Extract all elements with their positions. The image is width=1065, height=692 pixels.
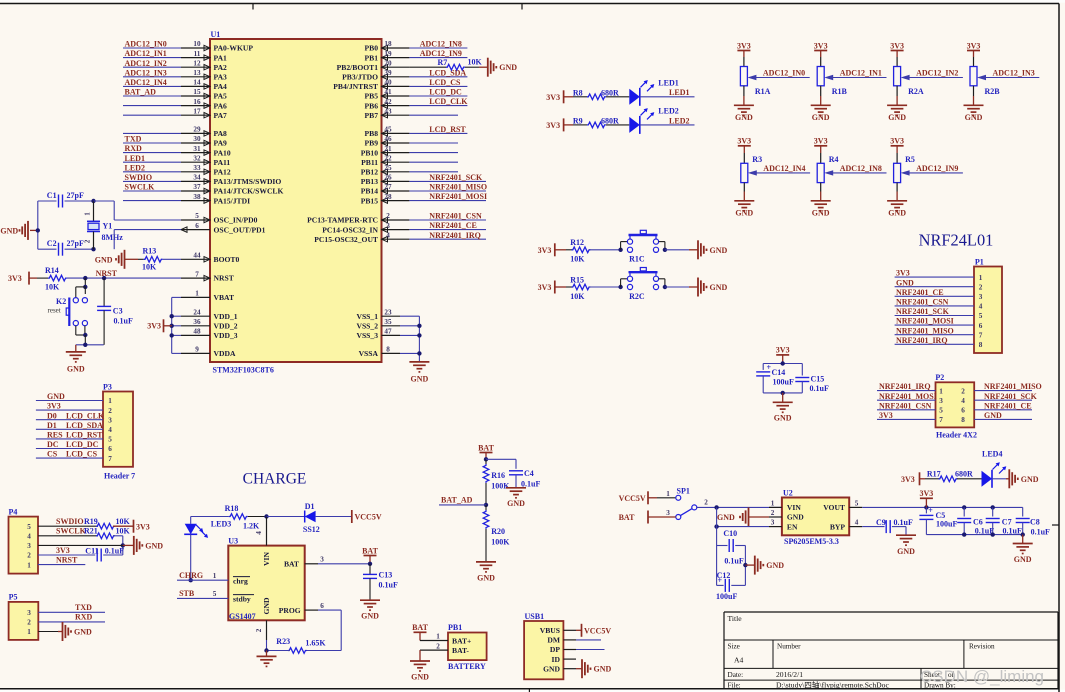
svg-text:P2: P2 [935, 373, 944, 382]
wire TXD [123, 142, 181, 144]
ground GND (R2A) [896, 96, 898, 105]
pin 1 chrg / net CHRG [177, 579, 228, 581]
svg-text:PC15-OSC32_OUT: PC15-OSC32_OUT [314, 235, 378, 244]
pin 2 GND (U3) [266, 620, 268, 640]
pin 38 PA15/JTDI [181, 200, 210, 202]
svg-text:PA7: PA7 [214, 111, 228, 120]
wire VSS_1 [400, 315, 419, 317]
svg-text:PB2/BOOT1: PB2/BOOT1 [337, 63, 379, 72]
wire NRF2401_IRQ [409, 238, 486, 240]
svg-text:Y1: Y1 [103, 222, 113, 231]
wire RXD [123, 152, 181, 154]
junction VOUT 3V3 [924, 505, 928, 509]
svg-text:4: 4 [255, 531, 263, 535]
svg-text:NRF2401_CSN: NRF2401_CSN [879, 401, 932, 410]
svg-text:GND: GND [965, 113, 983, 122]
svg-text:GND: GND [717, 513, 735, 522]
LED LED3 [185, 524, 197, 535]
svg-text:26: 26 [384, 174, 392, 182]
svg-text:5: 5 [855, 499, 859, 507]
svg-text:Header 7: Header 7 [104, 472, 135, 481]
svg-text:NRF2401_SCK: NRF2401_SCK [984, 392, 1038, 401]
pin 26 PB13 [382, 180, 410, 182]
svg-text:LED1: LED1 [669, 88, 689, 97]
svg-text:NRF2401_CE: NRF2401_CE [429, 221, 477, 230]
svg-text:ADC12_IN2: ADC12_IN2 [916, 69, 958, 78]
svg-text:GND: GND [361, 612, 379, 621]
svg-text:GND: GND [507, 499, 525, 508]
svg-text:C11: C11 [85, 546, 98, 555]
svg-text:LED2: LED2 [669, 116, 689, 125]
svg-text:PA2: PA2 [214, 63, 228, 72]
svg-text:SWCLK: SWCLK [125, 183, 156, 192]
junction Y1 top [91, 199, 95, 203]
resistor R12 10K [566, 249, 573, 251]
svg-text:3V3: 3V3 [56, 546, 70, 555]
svg-text:33: 33 [193, 164, 201, 172]
svg-text:VCC5V: VCC5V [355, 513, 382, 522]
svg-text:VSSA: VSSA [359, 349, 379, 358]
svg-text:VBUS: VBUS [540, 626, 560, 635]
sheet border bottom [0, 688, 1059, 690]
svg-text:27: 27 [384, 183, 392, 191]
svg-text:C15: C15 [811, 375, 825, 384]
svg-text:2: 2 [27, 552, 31, 560]
svg-text:+: + [718, 576, 723, 585]
capacitor C8 0.1uF [1022, 507, 1024, 516]
svg-text:PA15/JTDI: PA15/JTDI [214, 196, 251, 205]
pin 5 P4 / resistor R19 10K / net SWDIO [38, 525, 98, 527]
svg-text:VDD_2: VDD_2 [214, 322, 238, 331]
svg-text:NRF2401_MISO: NRF2401_MISO [429, 183, 487, 192]
potentiometer R3 [743, 153, 745, 163]
svg-text:GND: GND [477, 573, 495, 582]
svg-text:17: 17 [193, 107, 201, 115]
svg-text:3V3: 3V3 [737, 41, 751, 50]
svg-text:100K: 100K [491, 482, 510, 491]
svg-text:36: 36 [193, 318, 201, 326]
svg-text:ID: ID [552, 655, 561, 664]
push button R2C [620, 279, 622, 287]
ground GND (P5) [62, 622, 64, 641]
pin 11 PA1 [181, 57, 210, 59]
svg-text:R19: R19 [84, 517, 98, 526]
pin 35 VSS_2 [382, 325, 401, 327]
junction C6 bottom [962, 532, 966, 536]
svg-text:5: 5 [213, 590, 217, 598]
junction VDD_2 [170, 324, 174, 328]
pin 2 PC13-TAMPER-RTC [382, 219, 410, 221]
svg-text:PA14/JTCK/SWCLK: PA14/JTCK/SWCLK [214, 187, 284, 196]
connector P3 Header 7 [103, 392, 133, 467]
wire NRF2401_SCK [409, 180, 486, 182]
IC U2 SP6205EM5-3.3 body [782, 498, 849, 536]
junction C8 bottom [1021, 532, 1025, 536]
svg-text:USB1: USB1 [525, 612, 545, 621]
svg-text:R16: R16 [491, 471, 505, 480]
svg-text:SWCLK: SWCLK [56, 527, 87, 536]
resistor R17 680R [925, 478, 939, 480]
svg-text:LCD_SDA: LCD_SDA [429, 68, 466, 77]
svg-text:LED2: LED2 [125, 163, 145, 172]
svg-text:1: 1 [213, 572, 217, 580]
svg-text:File:: File: [728, 681, 741, 689]
capacitor C7 0.1uF [992, 507, 994, 516]
svg-text:43: 43 [384, 107, 392, 115]
svg-text:40: 40 [384, 79, 392, 87]
pin 37 PA14/JTCK/SWCLK [181, 190, 210, 192]
svg-text:23: 23 [384, 308, 392, 316]
svg-text:NRF24L01: NRF24L01 [919, 231, 994, 250]
pin 44 BOOT0 [181, 258, 210, 260]
svg-text:PB7: PB7 [364, 111, 378, 120]
wire ADC12_IN3 [982, 77, 1039, 79]
wire PROG to R23 [318, 609, 341, 611]
svg-text:BATTERY: BATTERY [448, 662, 486, 671]
ground GND (R1A) [743, 96, 745, 105]
svg-text:10: 10 [193, 40, 201, 48]
wire ADC12_IN2 [123, 66, 181, 68]
power port 3V3 (P4 R19) [133, 520, 135, 533]
svg-text:PB9: PB9 [364, 139, 378, 148]
junction BAT_AD [484, 503, 488, 507]
svg-text:TXD: TXD [75, 603, 92, 612]
pin 1 U2 [769, 506, 782, 508]
wire OSC_OUT link [114, 229, 181, 231]
wire LED4 to GND [992, 478, 1006, 480]
svg-text:LCD_CLK: LCD_CLK [66, 411, 105, 420]
capacitor C4 0.1uF [486, 458, 516, 460]
svg-text:3: 3 [27, 542, 31, 550]
svg-text:6: 6 [320, 602, 324, 610]
svg-text:BAT: BAT [478, 443, 495, 452]
junction CHRG [189, 578, 193, 582]
svg-text:PB14: PB14 [361, 187, 379, 196]
capacitor C3 0.1uF [103, 278, 105, 306]
svg-text:R2A: R2A [908, 87, 924, 96]
junction R2C right [663, 285, 667, 289]
junction C14 top [781, 361, 785, 365]
svg-text:PB8: PB8 [364, 129, 378, 138]
ground GND (BOOT0) [124, 250, 126, 269]
pin 1 P1 / net 3V3 [895, 276, 974, 278]
pin 33 PA12 [181, 171, 210, 173]
svg-text:NRF2401_CE: NRF2401_CE [984, 401, 1032, 410]
junction Y1 bottom [91, 247, 95, 251]
svg-text:PB6: PB6 [364, 101, 378, 110]
svg-text:0.1uF: 0.1uF [114, 317, 133, 326]
svg-text:1: 1 [436, 633, 440, 641]
svg-text:BAT: BAT [619, 513, 636, 522]
svg-text:R14: R14 [45, 266, 59, 275]
wire VOUT to 3V3 rail [862, 506, 1023, 508]
pin 32 PA11 [181, 161, 210, 163]
svg-text:3: 3 [771, 519, 775, 527]
svg-text:GND: GND [897, 547, 915, 556]
wire ADC12_IN3 [123, 76, 181, 78]
svg-text:13: 13 [193, 69, 201, 77]
svg-text:+: + [928, 506, 933, 515]
wire PA6 [123, 105, 181, 107]
svg-text:VDD_1: VDD_1 [214, 312, 238, 321]
svg-text:GND: GND [594, 665, 612, 674]
resistor R18 1.2K [190, 517, 192, 524]
ground GND (R2B) [973, 96, 975, 105]
svg-text:10K: 10K [570, 255, 585, 264]
svg-text:ADC12_IN0: ADC12_IN0 [763, 69, 805, 78]
svg-text:20: 20 [384, 59, 392, 67]
svg-text:GND: GND [735, 209, 753, 218]
svg-text:LED3: LED3 [211, 519, 231, 528]
svg-text:1.65K: 1.65K [305, 638, 326, 647]
pin 2 P3 [36, 409, 103, 411]
ground GND (K2) [75, 345, 77, 352]
svg-text:R9: R9 [573, 117, 583, 126]
svg-text:ADC12_IN3: ADC12_IN3 [125, 68, 167, 77]
pin 7 P2 / net 3V3 [877, 418, 936, 420]
svg-text:5: 5 [195, 212, 199, 220]
svg-text:TXD: TXD [125, 135, 142, 144]
ground GND (C14/C15) [782, 393, 784, 402]
svg-text:680R: 680R [601, 117, 619, 126]
pin 6 P1 / net NRF2401_MOSI [895, 324, 974, 326]
svg-text:R17: R17 [927, 470, 941, 479]
wire LED3 cathode [190, 534, 192, 580]
svg-text:BYP: BYP [830, 522, 846, 531]
svg-text:PA8: PA8 [214, 129, 228, 138]
capacitor C9 0.1uF [862, 526, 884, 528]
svg-text:22: 22 [384, 154, 392, 162]
svg-text:0.1uF: 0.1uF [724, 557, 743, 566]
svg-text:GND: GND [787, 513, 804, 522]
wire ADC12_IN8 [409, 47, 467, 49]
wire EN rail down [716, 507, 718, 585]
ground GND (crystal) [30, 229, 38, 231]
svg-text:BAT: BAT [284, 559, 299, 568]
svg-text:3V3: 3V3 [814, 137, 828, 146]
svg-text:C13: C13 [379, 571, 393, 580]
svg-text:2: 2 [979, 283, 983, 291]
pin 5 stdby / net STB [177, 597, 228, 599]
svg-text:7: 7 [939, 416, 943, 424]
junction NRST-K2 [83, 276, 87, 280]
wire ADC12_IN1 [829, 77, 886, 79]
junction R1C right [663, 248, 667, 252]
svg-text:GND: GND [145, 541, 163, 550]
svg-text:8MHz: 8MHz [102, 233, 124, 242]
wire ADC12_IN4 [123, 85, 181, 87]
pin 12 PA2 [181, 66, 210, 68]
svg-text:9: 9 [195, 346, 199, 354]
capacitor C14 100uF [762, 364, 764, 370]
svg-text:NRF2401_CE: NRF2401_CE [896, 288, 944, 297]
svg-text:C7: C7 [1002, 517, 1012, 526]
pin 4 P3 [36, 428, 103, 430]
junction VDD_3 [170, 333, 174, 337]
wire crystal left rail [37, 201, 39, 249]
wire ADC12_IN4 [753, 172, 810, 174]
junction R2C left [618, 285, 622, 289]
svg-text:1: 1 [979, 274, 983, 282]
sheet border top [0, 3, 1059, 5]
svg-text:D1: D1 [305, 502, 315, 511]
wire C14/C15 top rail [763, 363, 802, 365]
svg-text:PB4/JNTRST: PB4/JNTRST [333, 82, 378, 91]
svg-text:PA3: PA3 [214, 73, 228, 82]
wire PA8 [123, 132, 181, 134]
svg-text:48: 48 [193, 328, 201, 336]
svg-text:45: 45 [384, 126, 392, 134]
wire VSS rail [418, 316, 420, 362]
svg-text:RES: RES [47, 431, 63, 440]
svg-text:31: 31 [193, 145, 201, 153]
pin ID USB1 [563, 658, 576, 660]
svg-text:8: 8 [979, 341, 983, 349]
pin 3 PC14-OSC32_IN [382, 229, 410, 231]
svg-text:ADC12_IN8: ADC12_IN8 [420, 40, 462, 49]
svg-text:3: 3 [108, 416, 112, 424]
svg-text:R13: R13 [143, 246, 157, 255]
svg-text:BAT-: BAT- [452, 646, 469, 655]
svg-text:GND: GND [411, 672, 429, 681]
pin 46 PB9 [382, 142, 410, 144]
svg-text:SP1: SP1 [677, 487, 690, 496]
pin 8 P2 / net GND [974, 418, 1032, 420]
svg-text:GND: GND [710, 283, 728, 292]
wire LCD_CS [409, 85, 467, 87]
svg-text:PB10: PB10 [361, 148, 379, 157]
svg-text:PA1: PA1 [214, 53, 228, 62]
pin 28 PB15 [382, 200, 410, 202]
junction U3 gnd [264, 648, 268, 652]
svg-text:VCC5V: VCC5V [619, 494, 646, 503]
svg-text:R1C: R1C [629, 255, 645, 264]
svg-text:LCD_CLK: LCD_CLK [429, 97, 468, 106]
svg-text:R21: R21 [84, 527, 98, 536]
svg-text:100uF: 100uF [773, 377, 794, 386]
svg-text:DP: DP [550, 645, 560, 654]
svg-text:2: 2 [704, 499, 708, 507]
ground GND (C13) [360, 599, 380, 601]
ground GND (USB1) [581, 659, 583, 678]
svg-text:R2B: R2B [985, 87, 1001, 96]
svg-text:R18: R18 [225, 504, 239, 513]
svg-text:LCD_DC: LCD_DC [429, 88, 462, 97]
junction C6 top [962, 505, 966, 509]
svg-text:GS1407: GS1407 [229, 612, 256, 621]
svg-text:SWDIO: SWDIO [56, 517, 84, 526]
pin 9 VDDA [181, 352, 210, 354]
svg-text:C14: C14 [772, 368, 786, 377]
ground GND (C9) [896, 534, 916, 536]
svg-text:ADC12_IN4: ADC12_IN4 [763, 164, 805, 173]
svg-text:38: 38 [193, 193, 201, 201]
pin 3 P5 / net TXD [38, 611, 105, 613]
svg-text:11: 11 [194, 50, 201, 58]
pin 2 PB1 [420, 649, 448, 651]
svg-text:30: 30 [193, 135, 201, 143]
junction C10 gnd [743, 563, 747, 567]
svg-text:C3: C3 [113, 307, 123, 316]
svg-text:Date:: Date: [728, 671, 744, 679]
pin 5 U2 [849, 506, 862, 508]
svg-text:R3: R3 [752, 155, 762, 164]
wire EN [717, 526, 769, 528]
wire VSS_2 [400, 325, 419, 327]
svg-text:C2: C2 [47, 239, 57, 248]
svg-text:4: 4 [855, 519, 859, 527]
svg-text:3: 3 [386, 222, 390, 230]
pin 1 P5 to GND [38, 631, 58, 633]
wire C10/C12 right rail [744, 546, 746, 586]
wire R7 to GND [465, 66, 479, 68]
svg-text:3: 3 [666, 509, 670, 517]
pin 3 P1 / net NRF2401_CE [895, 295, 974, 297]
pin 1 P4 / net NRST [38, 564, 85, 566]
svg-text:100uF: 100uF [716, 592, 737, 601]
svg-text:PA9: PA9 [214, 139, 228, 148]
svg-text:VIN: VIN [787, 503, 801, 512]
svg-text:NRF2401_IRQ: NRF2401_IRQ [879, 382, 931, 391]
svg-text:GND: GND [735, 113, 753, 122]
svg-text:PC14-OSC32_IN: PC14-OSC32_IN [322, 225, 378, 234]
wire ADC12_IN2 [906, 77, 963, 79]
wire LED1 [123, 161, 181, 163]
svg-text:STM32F103C8T6: STM32F103C8T6 [213, 366, 274, 375]
svg-text:LCD_SDA: LCD_SDA [66, 421, 103, 430]
ground GND (PB1) [419, 650, 421, 661]
svg-text:1.2K: 1.2K [243, 522, 260, 531]
svg-text:D0: D0 [47, 411, 57, 420]
svg-text:3V3: 3V3 [890, 41, 904, 50]
pin 6 P2 / net NRF2401_CE [974, 409, 1032, 411]
ground GND (3V3 rail) [1022, 535, 1024, 544]
svg-text:GND: GND [1021, 475, 1039, 484]
resistor R23 1.65K [288, 648, 307, 654]
svg-text:R1B: R1B [832, 87, 848, 96]
capacitor C12 100uF [717, 584, 724, 586]
svg-text:GND: GND [262, 597, 271, 614]
svg-text:5: 5 [979, 312, 983, 320]
svg-text:6: 6 [979, 322, 983, 330]
svg-text:chrg: chrg [233, 577, 248, 586]
pin 16 PA6 [181, 105, 210, 107]
svg-text:NRF2401_MISO: NRF2401_MISO [896, 326, 954, 335]
svg-text:ADC12_IN1: ADC12_IN1 [125, 49, 167, 58]
ground GND (R20) [476, 561, 496, 563]
pin 8 P1 / net NRF2401_IRQ [895, 343, 974, 345]
svg-text:18: 18 [384, 40, 392, 48]
pin 4 PC15-OSC32_OUT [382, 238, 410, 240]
svg-text:19: 19 [384, 50, 392, 58]
svg-text:NRF2401_MOSI: NRF2401_MOSI [429, 192, 487, 201]
svg-text:GND: GND [710, 246, 728, 255]
svg-text:GND: GND [812, 113, 830, 122]
svg-text:PB15: PB15 [361, 196, 379, 205]
svg-text:DC: DC [47, 440, 59, 449]
pin 1 PB1 [420, 640, 448, 642]
svg-text:29: 29 [193, 126, 201, 134]
svg-text:3V3: 3V3 [546, 121, 560, 130]
svg-text:8: 8 [961, 416, 965, 424]
pin 14 PA4 [181, 85, 210, 87]
ground GND (P4) [133, 536, 135, 555]
svg-text:GND: GND [888, 209, 906, 218]
svg-text:CS: CS [47, 450, 58, 459]
svg-text:VSS_1: VSS_1 [356, 312, 378, 321]
pin 13 PA3 [181, 76, 210, 78]
svg-text:3V3: 3V3 [890, 137, 904, 146]
